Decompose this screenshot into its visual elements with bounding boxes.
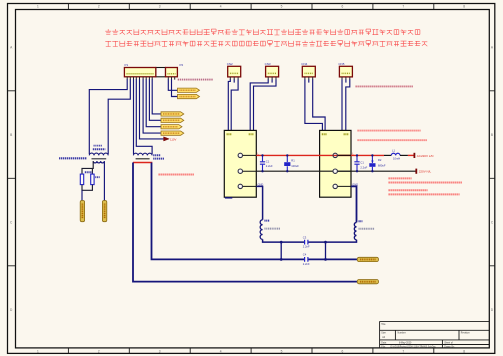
AC-L terminal bar — [413, 153, 415, 158]
U2 pin numbers — [322, 133, 327, 135]
port flag 1 AC220V-L — [178, 88, 200, 92]
stub CN4.2 — [308, 79, 310, 82]
junction C2 bottom — [286, 170, 288, 172]
svg-text:AC220V L/N: AC220V L/N — [417, 154, 434, 158]
wire U1 pin3 to L2 — [256, 186, 262, 219]
U1 wire stub below box — [225, 197, 232, 199]
capacitor C5 — [356, 155, 358, 171]
svg-text:CN2: CN2 — [227, 62, 233, 66]
svg-text:File:: File: — [381, 347, 386, 349]
LED D1 — [91, 174, 94, 185]
capacitor C6 (polarized) — [371, 155, 373, 171]
wire P1.8 to port flag 4 — [149, 79, 161, 120]
wire T2 secondary left to bottom bus — [133, 163, 357, 282]
L3 labels — [359, 220, 363, 222]
wire P2.1 to port flag 1 — [168, 79, 177, 90]
high voltage note line4 — [389, 193, 460, 195]
stub CN3.2 — [271, 79, 273, 82]
stub CN2.2 — [233, 79, 235, 82]
wire net L (red) U1 to L1 — [256, 154, 384, 156]
junction dots bus — [280, 241, 283, 244]
junction C2 top — [286, 154, 288, 156]
wire net N (black) U1 to U2 — [256, 170, 416, 172]
label above T1 — [94, 145, 103, 147]
wire CN3.3 to U1 top — [254, 79, 277, 130]
svg-text:L1: L1 — [392, 148, 395, 152]
high voltage note right of CN5 — [356, 85, 414, 87]
svg-text:8: 8 — [463, 350, 465, 354]
title block — [380, 321, 490, 348]
svg-text:2.2nF: 2.2nF — [303, 244, 310, 248]
svg-text:C1: C1 — [266, 160, 270, 164]
module U2 (converter box) — [320, 130, 351, 197]
svg-text:8-May-2020: 8-May-2020 — [399, 342, 412, 344]
U1 pin circle 2 — [238, 169, 242, 173]
transformer T2 core bar — [136, 158, 150, 160]
transformer T2 primary winding — [133, 153, 152, 155]
svg-text:5: 5 — [281, 5, 283, 9]
test terminal TP2 — [102, 201, 106, 222]
U1 pin lines — [243, 155, 257, 186]
output terminal P3 — [357, 257, 378, 261]
transformer T1 primary winding — [89, 153, 108, 155]
wire R network bottom join — [82, 185, 92, 191]
svg-text:6: 6 — [342, 5, 344, 9]
svg-text:680uF: 680uF — [378, 164, 386, 168]
connector CN2 (3-pin) — [228, 66, 241, 77]
wire T1 secondary right to TP2 — [103, 161, 105, 200]
junction C6 top — [371, 154, 373, 156]
wire L2 to bus — [263, 239, 305, 242]
wire P1.4 to T2 primary right — [136, 79, 152, 154]
svg-text:Sheet of: Sheet of — [444, 341, 453, 344]
svg-text:Title: Title — [381, 323, 386, 326]
connector P1 (long terminal block) — [124, 68, 155, 77]
U2 pin circle fills — [333, 153, 337, 157]
connector CN2 pins — [230, 77, 238, 80]
U2 pin circle 3 — [333, 184, 337, 188]
capacitor C1 — [262, 155, 264, 171]
inductor L3 — [354, 222, 356, 239]
svg-text:B: B — [491, 133, 493, 137]
svg-text:1: 1 — [37, 350, 39, 354]
title block labels — [381, 323, 470, 349]
port flag 3 — [161, 112, 184, 116]
U2 pin circle 2 — [333, 169, 337, 173]
capacitor C3 (series) — [305, 240, 308, 245]
svg-text:4: 4 — [220, 5, 222, 9]
svg-text:2.2nF: 2.2nF — [303, 262, 310, 266]
test terminal TP1 — [80, 201, 84, 222]
wire T2 secondary right to mid bus — [152, 163, 305, 260]
svg-text:220V N/L: 220V N/L — [419, 170, 432, 174]
svg-text:2: 2 — [98, 5, 100, 9]
wire CN5.1 to U2 top left — [341, 79, 343, 130]
svg-text:2.2uF: 2.2uF — [266, 164, 273, 168]
connector CN3 pins — [268, 77, 276, 80]
svg-text:B: B — [10, 133, 12, 137]
power port arrow 110V — [164, 137, 170, 141]
svg-text:10mH: 10mH — [393, 157, 400, 161]
svg-text:7: 7 — [402, 5, 404, 9]
svg-text:C3: C3 — [303, 235, 307, 239]
note C1 spec — [358, 130, 421, 132]
svg-text:6: 6 — [342, 350, 344, 354]
AC-N terminal bar — [415, 169, 417, 174]
svg-text:7: 7 — [402, 350, 404, 354]
svg-text:CN3: CN3 — [265, 62, 271, 66]
junction C5 top — [356, 154, 358, 156]
wire CN4.3 to U2 top — [313, 79, 325, 130]
svg-text:2.2uF: 2.2uF — [360, 166, 367, 170]
wire red to AC-L terminal — [408, 154, 414, 156]
wire net L dark segment inside U2 — [338, 154, 351, 156]
wire U2 pin3 to L3 — [351, 186, 357, 222]
L2 labels — [264, 220, 269, 222]
wire CN2.3 to U1 top — [231, 79, 238, 130]
svg-text:3: 3 — [159, 350, 161, 354]
vertical link 2 — [325, 242, 327, 259]
U2 pin lines — [337, 155, 351, 186]
capacitor C2 (polarized) — [286, 155, 288, 171]
U1 pin circle 3 — [238, 184, 242, 188]
wire CN4.1 to U2 top — [305, 79, 323, 130]
declaration warning text line 1 — [105, 29, 420, 35]
connector CN5 (3-pin) — [339, 66, 352, 77]
connector P2 (3-pin) — [166, 68, 178, 77]
label right of D1 — [95, 176, 100, 178]
svg-text:CN4: CN4 — [301, 62, 307, 66]
wire P1.6 to port flag 6 — [143, 79, 161, 133]
port flag 4 — [161, 118, 184, 122]
svg-text:Date:: Date: — [381, 341, 387, 344]
high voltage note line1 — [389, 177, 412, 179]
svg-text:2: 2 — [98, 350, 100, 354]
svg-text:C1: C1 — [360, 160, 364, 164]
svg-text:5: 5 — [281, 350, 283, 354]
wire P1.5 to 110V arrow — [140, 79, 164, 139]
stub CN5.2 — [345, 79, 347, 82]
junction C6 bottom — [371, 170, 373, 172]
resistor R3 — [80, 174, 83, 185]
connector CN5 pins — [342, 77, 350, 80]
connector CN3 (3-pin) — [266, 66, 279, 77]
svg-text:P1: P1 — [125, 63, 129, 67]
inductor L1 — [384, 154, 391, 156]
transformer T2 secondary (red) — [133, 162, 152, 164]
junction C5 bottom — [356, 170, 358, 172]
relay K1 (white box) — [156, 68, 166, 77]
capacitor C4 (series) — [305, 257, 308, 262]
svg-text:1: 1 — [37, 5, 39, 9]
svg-text:Drawn By:: Drawn By: — [444, 346, 455, 349]
svg-text:Number: Number — [398, 332, 406, 335]
svg-text:110V: 110V — [170, 137, 176, 141]
svg-text:3: 3 — [159, 5, 161, 9]
high voltage warning near T2 — [159, 174, 195, 176]
wire P1.7 to port flag 5 — [146, 79, 161, 127]
note C2 spec — [358, 139, 428, 141]
svg-text:C4: C4 — [303, 253, 307, 257]
U2 pin circle 1 — [333, 153, 337, 157]
wire P2.2 to port flag 2 — [172, 79, 178, 96]
wire CN3.1 to U1 top — [250, 79, 268, 130]
wire CN5.3 to U2 top — [346, 79, 350, 130]
port flag 5 — [161, 125, 182, 129]
declaration warning text line 2 — [105, 41, 427, 47]
output terminal P4 — [357, 280, 378, 284]
wire P1.2 to T1 primary right — [108, 79, 130, 154]
wire CN2.1 to U1 top left — [228, 79, 230, 130]
port flag 6 — [161, 131, 184, 135]
mid bus right of C4 — [308, 258, 357, 260]
high voltage note line3 — [389, 189, 428, 191]
wire P1.3 to T2 primary left — [133, 79, 135, 154]
module U1 (converter box) — [224, 130, 256, 197]
wire R network branch — [91, 168, 93, 174]
label left of T1 — [59, 157, 87, 159]
transformer T1 secondary winding — [93, 161, 104, 163]
connector CN4 (3-pin) — [302, 66, 315, 77]
svg-text:CN5: CN5 — [338, 62, 344, 66]
connector P2 pins — [168, 77, 174, 80]
svg-text:4: 4 — [220, 350, 222, 354]
wire L3 to bus — [308, 240, 356, 242]
wire T1 secondary left to R network — [82, 161, 93, 174]
high voltage note above flags — [178, 79, 213, 81]
transformer T1 core bar — [92, 158, 107, 160]
svg-text:Revision: Revision — [461, 333, 471, 335]
wire P1.9 to port flag 3 — [152, 79, 161, 114]
designator R3 — [85, 171, 93, 173]
connector CN4 pins — [305, 77, 313, 80]
svg-text:Size: Size — [381, 333, 386, 335]
high voltage note line2 — [389, 182, 463, 184]
U1 pin numbers — [227, 133, 232, 135]
U1 pin circle 1 — [238, 153, 242, 157]
svg-text:8: 8 — [463, 5, 465, 9]
designator T2 — [153, 154, 160, 156]
vertical link 1 — [280, 242, 282, 259]
svg-text:E:\AD19\Project\220V-110V-TRAN: E:\AD19\Project\220V-110V-TRANS.SchDoc — [391, 346, 437, 349]
designator T1 — [93, 148, 106, 150]
svg-text:100uF: 100uF — [291, 164, 299, 168]
wire to test pin TP1 — [81, 190, 83, 200]
junction C1 bottom — [261, 170, 263, 172]
svg-text:R2: R2 — [378, 158, 382, 162]
port flag 2 AC220V-N — [178, 94, 200, 98]
connector P1 pins — [127, 77, 152, 80]
wire P1.1 to T1 primary left — [89, 79, 127, 154]
svg-text:P2: P2 — [180, 63, 184, 67]
inductor L2 — [260, 220, 262, 240]
svg-text:R1: R1 — [291, 158, 295, 162]
junction C1 top — [261, 154, 263, 156]
